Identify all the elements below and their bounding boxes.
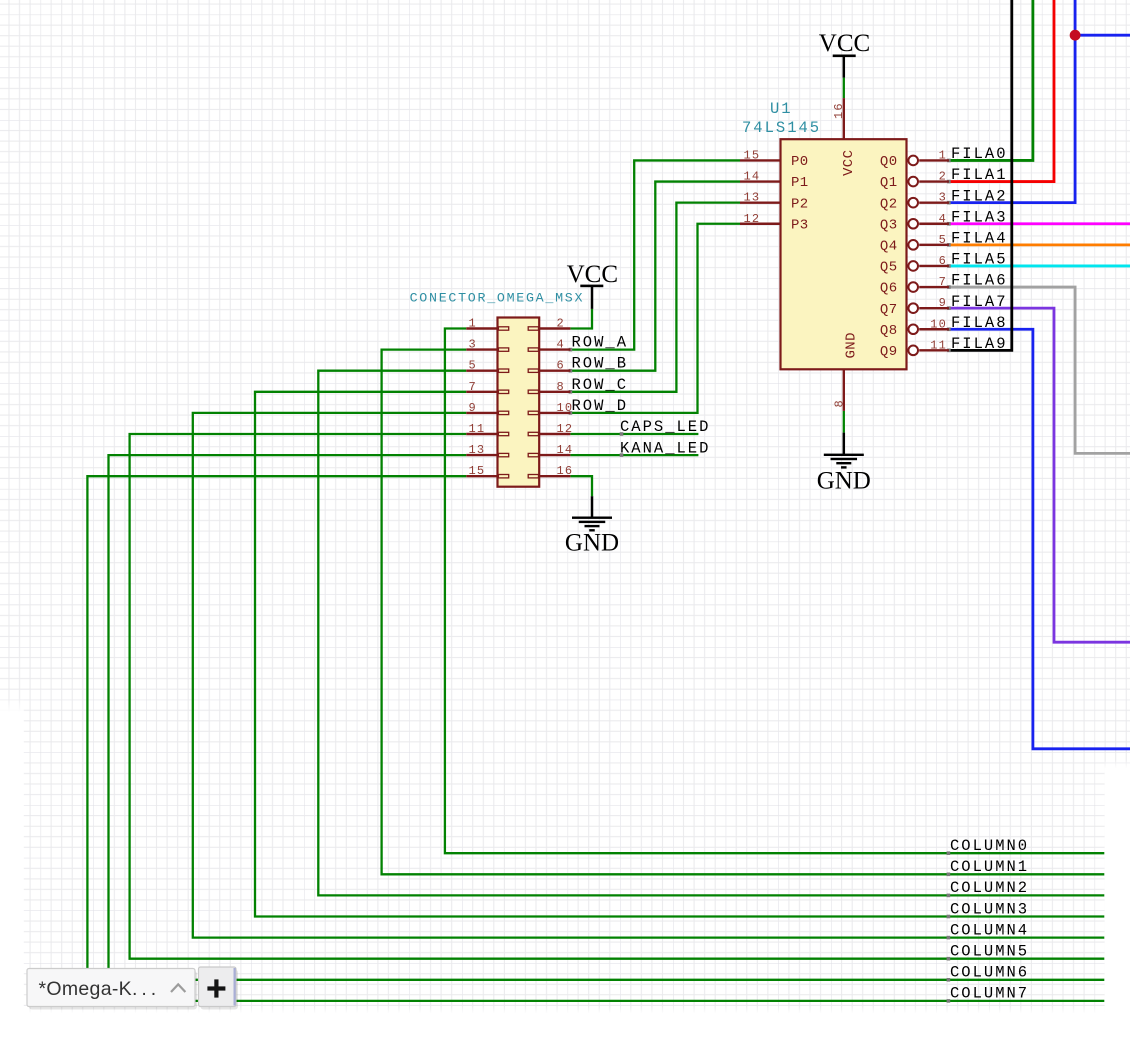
wire net FILA8 — [949, 329, 1130, 749]
svg-text:P3: P3 — [791, 217, 809, 233]
connector pin 16 — [528, 464, 573, 478]
svg-text:FILA1: FILA1 — [951, 166, 1008, 184]
svg-text:P1: P1 — [791, 175, 809, 191]
svg-text:P2: P2 — [791, 196, 809, 212]
wire net CAPS_LED connector pin 12 — [570, 433, 698, 435]
wire net FILA5 — [949, 265, 1130, 268]
wire net COLUMN6 from connector pin 13 — [109, 455, 1105, 980]
node COLUMN2 label anchor dot — [947, 894, 951, 898]
svg-text:COLUMN3: COLUMN3 — [950, 900, 1029, 918]
junction on net FILA2 — [1070, 30, 1081, 41]
svg-text:3: 3 — [939, 191, 947, 205]
connector pin 2 — [528, 317, 570, 331]
node COLUMN5 label anchor dot — [947, 957, 951, 961]
connector pin 3 — [466, 338, 508, 352]
svg-text:15: 15 — [469, 464, 486, 478]
node FILA1 anchor dot — [947, 180, 951, 184]
svg-text:7: 7 — [939, 275, 947, 289]
node KANA_LED anchor dot — [620, 453, 624, 457]
svg-text:CAPS_LED: CAPS_LED — [620, 418, 710, 436]
svg-text:16: 16 — [832, 102, 846, 119]
svg-text:3: 3 — [469, 338, 477, 352]
wire net COLUMN7 from connector pin 15 — [87, 476, 1104, 1001]
connector pin 5 — [466, 359, 508, 373]
svg-text:Q7: Q7 — [880, 302, 898, 318]
wire net FILA0 — [949, 0, 1033, 160]
node ROW_C anchor dot — [569, 390, 573, 394]
svg-text:12: 12 — [744, 212, 761, 226]
wire net ROW_D connector pin 10 to U1 P3 — [570, 224, 740, 413]
svg-text:CONECTOR_OMEGA_MSX: CONECTOR_OMEGA_MSX — [410, 291, 585, 306]
svg-text:15: 15 — [744, 148, 761, 162]
power symbol VCC (U1) — [819, 30, 870, 78]
svg-text:2: 2 — [939, 170, 947, 184]
node COLUMN3 label anchor dot — [947, 915, 951, 919]
svg-text:COLUMN5: COLUMN5 — [950, 943, 1029, 961]
node COLUMN1 label anchor dot — [947, 873, 951, 877]
svg-text:*Omega-K...: *Omega-K... — [39, 978, 161, 1000]
node FILA6 anchor dot — [947, 285, 951, 289]
wire net COLUMN5 from connector pin 11 — [130, 434, 1105, 959]
svg-text:12: 12 — [557, 422, 574, 436]
U1 pin 4 Q3 — [880, 212, 949, 234]
svg-text:COLUMN6: COLUMN6 — [950, 964, 1029, 982]
svg-text:COLUMN1: COLUMN1 — [950, 858, 1029, 876]
U1 pin 9 Q7 — [880, 296, 949, 318]
node FILA8 anchor dot — [947, 327, 951, 331]
wire net COLUMN4 from connector pin 9 — [193, 413, 1105, 938]
svg-text:16: 16 — [557, 464, 574, 478]
wire net KANA_LED connector pin 14 — [570, 454, 698, 456]
connector J CONECTOR_OMEGA_MSX body — [498, 318, 540, 487]
node COLUMN4 label anchor dot — [947, 936, 951, 940]
svg-text:13: 13 — [744, 191, 761, 205]
U1 pin 11 Q9 — [880, 338, 949, 360]
U1 pin 5 Q4 — [880, 233, 949, 255]
U1 pin 8 (GND pin) — [833, 332, 860, 411]
svg-text:4: 4 — [939, 212, 947, 226]
svg-text:74LS145: 74LS145 — [742, 119, 821, 137]
node ROW_B anchor dot — [569, 369, 573, 373]
wire net FILA1 — [949, 0, 1054, 182]
U1 pin 2 Q1 — [880, 170, 949, 192]
svg-text:P0: P0 — [791, 154, 809, 170]
svg-text:6: 6 — [939, 254, 947, 268]
wire net COLUMN3 from connector pin 7 — [255, 392, 1104, 917]
svg-text:COLUMN7: COLUMN7 — [950, 985, 1029, 1003]
svg-text:ROW_D: ROW_D — [572, 397, 629, 415]
svg-text:COLUMN4: COLUMN4 — [950, 921, 1029, 939]
connector pin 11 — [466, 422, 508, 436]
power symbol VCC (connector) — [567, 261, 618, 309]
svg-text:2: 2 — [557, 317, 565, 331]
svg-text:FILA5: FILA5 — [951, 251, 1008, 269]
wire net FILA2 — [949, 0, 1075, 203]
U1 pin 14 P1 — [740, 170, 809, 192]
wire net FILA9 — [949, 0, 1012, 350]
node FILA4 anchor dot — [947, 243, 951, 247]
wire net FILA7 — [949, 308, 1130, 642]
svg-text:FILA4: FILA4 — [951, 229, 1008, 247]
node ROW_D anchor dot — [569, 411, 573, 415]
svg-text:COLUMN0: COLUMN0 — [950, 837, 1029, 855]
node FILA0 anchor dot — [947, 159, 951, 163]
connector pin 4 — [528, 338, 570, 352]
connector pin 10 — [528, 401, 573, 415]
IC U1 74LS145 body — [781, 139, 907, 369]
wire U1 pin 16 to VCC — [843, 78, 845, 99]
page edge bottom band — [0, 1007, 1130, 1049]
svg-text:Q8: Q8 — [880, 323, 898, 339]
svg-text:ROW_C: ROW_C — [572, 376, 629, 394]
wire connector pin 16 to GND — [570, 476, 592, 496]
svg-text:10: 10 — [930, 317, 947, 331]
U1 pin 16 (VCC pin) — [832, 98, 857, 176]
connector pin 6 — [528, 359, 570, 373]
svg-text:11: 11 — [930, 338, 947, 352]
svg-text:VCC: VCC — [841, 150, 857, 176]
svg-text:VCC: VCC — [567, 261, 618, 288]
svg-text:8: 8 — [833, 399, 847, 407]
svg-text:GND: GND — [565, 530, 619, 557]
U1 pin 6 Q5 — [880, 254, 949, 276]
new sheet + button — [199, 967, 239, 1010]
node CAPS_LED anchor dot — [620, 432, 624, 436]
svg-text:COLUMN2: COLUMN2 — [950, 879, 1029, 897]
svg-text:Q4: Q4 — [880, 238, 898, 254]
connector pin 1 — [466, 317, 508, 331]
svg-text:ROW_B: ROW_B — [572, 355, 629, 373]
connector pin 7 — [466, 380, 508, 394]
U1 pin 13 P2 — [740, 191, 809, 213]
wire net FILA6 — [949, 287, 1130, 453]
svg-text:14: 14 — [744, 170, 761, 184]
U1 pin 10 Q8 — [880, 317, 949, 339]
connector pin 8 — [528, 380, 570, 394]
connector pin 9 — [466, 401, 508, 415]
svg-text:GND: GND — [843, 332, 859, 358]
U1 pin 7 Q6 — [880, 275, 949, 297]
wire net ROW_C connector pin 8 to U1 P2 — [570, 203, 740, 392]
svg-text:9: 9 — [939, 296, 947, 310]
page edge bottom-left — [0, 698, 24, 1049]
U1 pin 3 Q2 — [880, 191, 949, 213]
wire connector pin 2 to VCC — [570, 309, 592, 329]
svg-text:FILA3: FILA3 — [951, 208, 1008, 226]
svg-text:4: 4 — [557, 338, 565, 352]
svg-text:KANA_LED: KANA_LED — [620, 439, 710, 457]
node COLUMN7 label anchor dot — [947, 999, 951, 1003]
U1 pin 12 P3 — [740, 212, 809, 234]
svg-text:Q6: Q6 — [880, 281, 898, 297]
node FILA3 anchor dot — [947, 222, 951, 226]
sheet tab *Omega-K — [27, 969, 197, 1010]
svg-text:5: 5 — [469, 359, 477, 373]
svg-text:VCC: VCC — [819, 30, 870, 57]
svg-text:Q3: Q3 — [880, 217, 898, 233]
connector pin 14 — [528, 443, 573, 457]
node FILA5 anchor dot — [947, 264, 951, 268]
wire net COLUMN2 from connector pin 5 — [318, 371, 1104, 896]
node FILA2 anchor dot — [947, 201, 951, 205]
node COLUMN0 label anchor dot — [947, 851, 951, 855]
page edge bottom-right — [1105, 760, 1130, 1049]
wire net COLUMN1 from connector pin 3 — [382, 350, 1105, 875]
svg-text:GND: GND — [817, 468, 871, 495]
wire net FILA4 — [949, 243, 1130, 246]
connector pin 15 — [466, 464, 508, 478]
svg-text:FILA6: FILA6 — [951, 272, 1008, 290]
svg-text:13: 13 — [469, 443, 486, 457]
connector pin 12 — [528, 422, 573, 436]
svg-text:Q2: Q2 — [880, 196, 898, 212]
svg-text:8: 8 — [557, 380, 565, 394]
svg-text:14: 14 — [557, 443, 574, 457]
wire net COLUMN0 from connector pin 1 — [445, 329, 1104, 854]
ground symbol GND (U1) — [817, 433, 871, 495]
svg-text:Q9: Q9 — [880, 344, 898, 360]
wire net FILA3 — [949, 222, 1130, 225]
svg-text:6: 6 — [557, 359, 565, 373]
wire net FILA2 branch to right edge — [1075, 34, 1130, 37]
svg-text:5: 5 — [939, 233, 947, 247]
node ROW_A anchor dot — [569, 348, 573, 352]
svg-text:FILA9: FILA9 — [951, 335, 1008, 353]
wire U1 pin 8 to GND — [843, 411, 845, 433]
svg-text:1: 1 — [469, 317, 477, 331]
svg-text:FILA8: FILA8 — [951, 314, 1008, 332]
svg-text:FILA2: FILA2 — [951, 187, 1008, 205]
svg-text:FILA0: FILA0 — [951, 145, 1008, 163]
wire net ROW_B connector pin 6 to U1 P1 — [570, 182, 740, 371]
connector pin 13 — [466, 443, 508, 457]
node FILA9 anchor dot — [947, 349, 951, 353]
svg-text:10: 10 — [557, 401, 574, 415]
node FILA7 anchor dot — [947, 306, 951, 310]
svg-text:U1: U1 — [770, 100, 793, 118]
svg-text:Q1: Q1 — [880, 175, 898, 191]
node COLUMN6 label anchor dot — [947, 978, 951, 982]
wire net ROW_A connector pin 4 to U1 P0 — [570, 160, 740, 349]
svg-text:1: 1 — [939, 148, 947, 162]
svg-text:FILA7: FILA7 — [951, 293, 1008, 311]
svg-text:9: 9 — [469, 401, 477, 415]
U1 pin 15 P0 — [740, 148, 809, 170]
svg-text:11: 11 — [469, 422, 486, 436]
svg-text:ROW_A: ROW_A — [572, 334, 629, 352]
svg-text:7: 7 — [469, 380, 477, 394]
U1 pin 1 Q0 — [880, 148, 949, 170]
svg-text:Q0: Q0 — [880, 154, 898, 170]
svg-text:Q5: Q5 — [880, 260, 898, 276]
ground symbol GND (connector) — [565, 496, 619, 556]
